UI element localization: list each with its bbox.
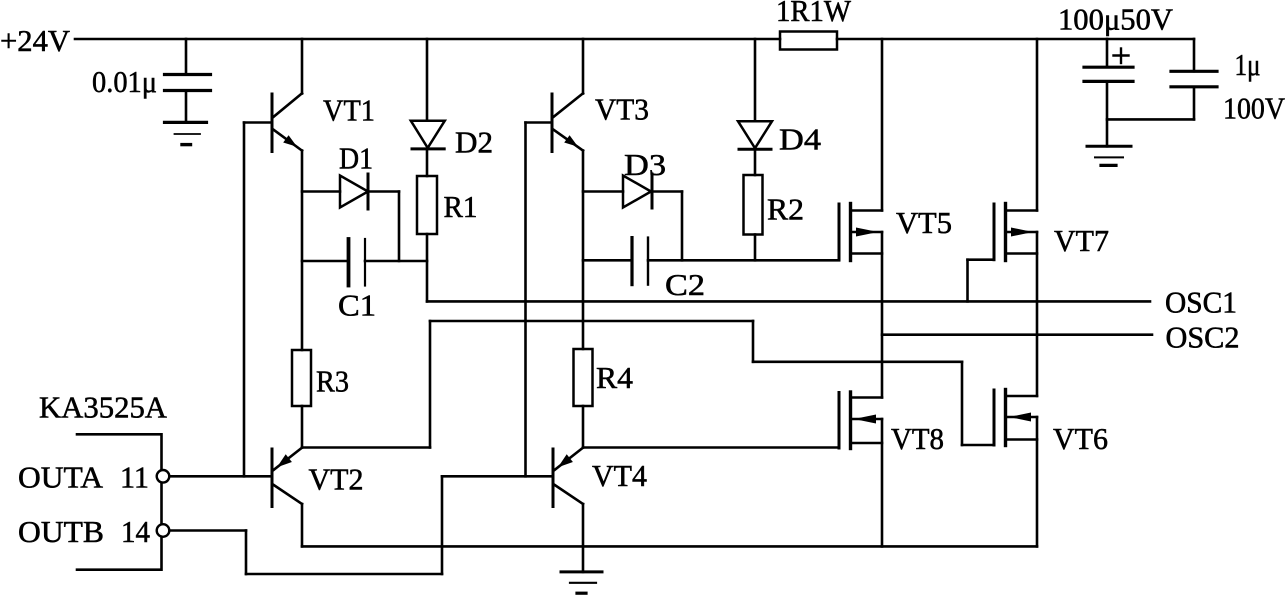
wire VT2 emitter net vertical at x753 [752,321,755,362]
mosfet VT7 [994,204,1037,261]
wire D3 anode lead [583,190,623,193]
wire VT1 base vertical down to OUTA net [243,123,246,477]
svg-text:0.01μ: 0.01μ [92,64,157,99]
resistor 1R1W inline in rail [780,32,837,50]
svg-text:100μ50V: 100μ50V [1058,2,1174,37]
wire R1 bottom to OSC1 line corner [426,234,429,301]
resistor R4 [574,349,593,406]
capacitor 1u 100V [1171,71,1217,87]
wire C2 row right to VT5 gate [648,259,839,262]
wire VT4 emitter junction to VT8 gate [583,446,839,449]
svg-text:14: 14 [121,514,150,549]
wire VT3 collector to rail [582,39,585,94]
svg-text:VT6: VT6 [1053,421,1108,456]
wire 0.01u cap bottom lead [185,91,188,123]
wire bottom rail [302,545,1037,548]
wire electrolytic cap top lead [1106,39,1109,67]
svg-text:VT5: VT5 [896,205,952,240]
svg-text:R2: R2 [767,192,804,227]
svg-text:VT8: VT8 [891,421,944,456]
svg-text:VT1: VT1 [323,93,375,128]
wire D3 cathode vertical to C2 row [681,192,684,261]
wire VT1 collector to rail [301,39,304,94]
wire top +24V rail right segment [837,38,1194,41]
diode D2 [411,121,445,149]
svg-text:VT3: VT3 [595,92,649,127]
svg-text:D3: D3 [624,147,666,182]
wire OSC2 line from VT5-VT8 midpoint to right [882,333,1152,336]
wire VT5 drain bus to rail [881,39,884,211]
wire VT4 base lead [442,475,553,478]
wire VT4 collector down to ground [582,504,585,572]
wire C1 row right to R1 branch [365,260,427,263]
wire OUTA to VT2 base [170,475,273,478]
wire D3 cathode lead [652,190,682,193]
pin terminal OUTB circle [157,524,170,537]
transistor VT4 [553,448,583,507]
wire top +24V rail left segment [75,38,780,41]
chip KA3525A outline box [77,434,162,569]
resistor R2 [744,175,763,235]
wire link between cap bottoms y119 [1107,118,1194,121]
svg-text:1μ: 1μ [1235,47,1261,82]
wire R3 bottom to VT2 emitter junction [301,406,304,448]
wire D4 anode to rail [754,39,757,121]
capacitor 0.01u [165,75,211,91]
svg-text:R1: R1 [444,189,478,224]
wire 1u cap top lead [1193,39,1196,71]
wire OUTB horizontal lead [170,529,247,532]
wire VT5 source bus down to VT8 drain [881,232,884,398]
svg-text:OSC1: OSC1 [1165,285,1237,320]
wire VT7 gate vertical to OSC1 line [966,260,969,302]
svg-text:VT2: VT2 [309,462,364,497]
wire VT3 base lead [526,121,553,124]
diode D1 [340,174,368,209]
svg-text:C1: C1 [338,288,376,323]
svg-text:1R1W: 1R1W [776,0,852,28]
mosfet VT5 [839,204,882,261]
wire VT6 gate stub [962,444,994,447]
capacitor C2 [632,238,648,285]
wire VT3 emitter vertical down through C2 row to R4 [582,151,585,349]
wire OUTB riser to VT4 base [441,476,444,574]
svg-text:C2: C2 [665,267,705,302]
wire D2 cathode to R1 [426,149,429,176]
svg-text:R4: R4 [596,360,634,395]
wire 0.01u cap top lead [185,39,188,75]
capacitor 100u50V electrolytic [1084,49,1133,82]
wire C2 row left [583,259,632,262]
wire VT2 emitter net horizontal y362 [753,360,962,363]
wire D4 cathode to R2 [754,149,757,175]
wire C1 row left [302,260,349,263]
mosfet VT8 [839,392,882,449]
ground left [165,122,207,144]
svg-text:VT7: VT7 [1054,223,1109,258]
wire VT7 drain bus to rail [1036,39,1039,211]
resistor R1 [417,176,437,234]
svg-text:D1: D1 [339,141,373,176]
wire VT6 source bus down to bottom rail [1036,417,1039,546]
transistor VT1 [272,93,302,151]
wire VT2 collector down to bottom rail [301,504,304,546]
wire D1 cathode lead [368,190,399,193]
pin terminal OUTA circle [157,470,170,483]
wire VT3 base vertical down to VT4 base net [524,123,527,477]
wire VT2 emitter net vertical riser at x430 [429,321,432,448]
capacitor C1 [349,239,366,286]
wire D1 cathode vertical to C1 row [398,192,401,262]
svg-text:100V: 100V [1223,91,1286,126]
wire R4 bottom to VT4 emitter junction [582,406,585,448]
svg-text:+24V: +24V [0,23,71,58]
transistor VT3 [552,93,583,151]
wire 1u cap bottom lead [1193,87,1196,120]
wire VT8 source bus down to bottom rail [881,419,884,546]
wire electrolytic bottom lead to ground [1106,81,1109,146]
svg-text:D2: D2 [455,125,493,160]
wire VT6 gate vertical at x964 [961,362,964,445]
mosfet VT6 [994,390,1037,446]
wire OUTB vertical down [245,531,248,575]
wire VT2 emitter net horizontal y321 [430,320,753,323]
wire VT7 gate stub [968,258,995,261]
svg-text:OUTB: OUTB [18,514,104,549]
svg-text:OUTA: OUTA [18,460,104,495]
wire R2 bottom to C2 row [754,235,757,261]
ground right [1087,146,1131,165]
svg-text:OSC2: OSC2 [1166,320,1240,355]
wire D2 anode to rail [426,39,429,121]
diode D3 [623,174,652,208]
resistor R3 [292,350,311,406]
wire VT1 emitter vertical down through C1 row to R3 [301,151,304,350]
wire OSC1 line from R1 bottom to right [427,300,1150,303]
svg-text:R3: R3 [316,364,349,399]
wire VT7 source bus down through OSC lines to VT6 drain [1036,232,1039,396]
svg-text:D4: D4 [779,122,822,157]
svg-text:KA3525A: KA3525A [39,390,168,425]
diode D4 [738,121,772,149]
wire VT2 emitter junction horizontal to riser [302,446,430,449]
svg-text:VT4: VT4 [592,458,647,493]
svg-text:11: 11 [120,460,149,495]
wire VT1 base lead [244,121,272,124]
wire OUTB bottom horizontal [246,573,442,576]
transistor VT2 [272,448,302,507]
ground center [561,572,602,593]
wire D1 anode lead [302,190,340,193]
